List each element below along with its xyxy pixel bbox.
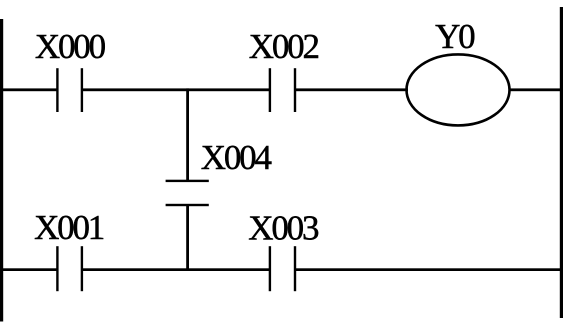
wire: rung 2, X001 to X003: [82, 268, 270, 271]
svg-text:X004: X004: [201, 138, 272, 177]
svg-text:X001: X001: [34, 208, 104, 247]
contact X004: [166, 180, 209, 207]
svg-text:X000: X000: [35, 27, 106, 66]
svg-text:X002: X002: [249, 27, 319, 66]
svg-text:Y0: Y0: [435, 17, 475, 56]
contact X001: [56, 246, 83, 291]
contact X000: [56, 68, 83, 112]
contact X002: [269, 68, 296, 112]
wire: rung 1, left rail to X000: [2, 88, 57, 91]
wire: rung 2, left rail to X001: [2, 268, 57, 271]
left power rail: [0, 19, 3, 322]
coil Y0: [407, 54, 510, 125]
contact X003: [269, 246, 296, 291]
wire: rung 1, X000 to X002: [82, 88, 270, 91]
right power rail: [560, 7, 563, 318]
svg-text:X003: X003: [248, 209, 319, 248]
wire: branch vertical, X004 down to rung 2: [186, 205, 189, 272]
wire: rung 1, coil Y0 to right rail: [509, 88, 562, 91]
wire: rung 1, X002 to coil Y0: [295, 88, 408, 91]
wire: rung 2, X003 to right rail: [295, 268, 561, 271]
wire: branch vertical, rung 1 down to X004: [186, 88, 189, 181]
